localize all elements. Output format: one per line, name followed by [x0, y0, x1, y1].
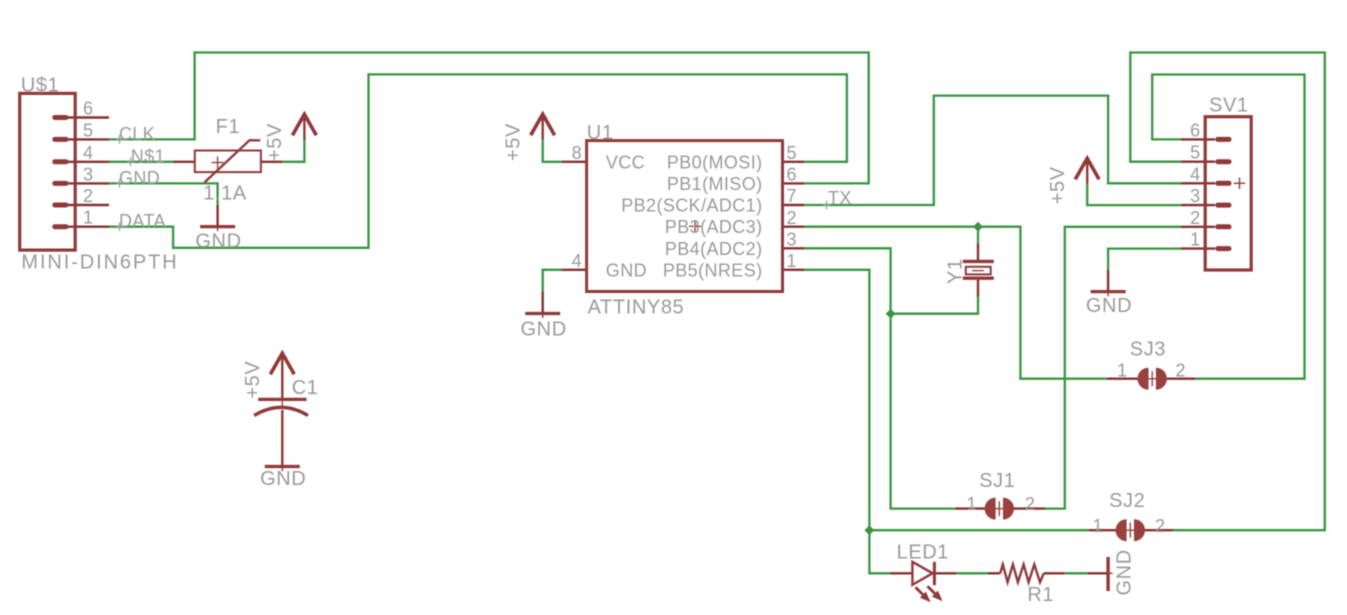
svg-text:2: 2 — [1176, 361, 1186, 381]
svg-text:PB2(SCK/ADC1): PB2(SCK/ADC1) — [621, 196, 762, 216]
svg-text:GND: GND — [1114, 549, 1136, 595]
svg-text:4: 4 — [1190, 164, 1200, 184]
svg-text:PB3(ADC3): PB3(ADC3) — [665, 217, 763, 237]
svg-text:2: 2 — [1190, 208, 1200, 228]
svg-text:6: 6 — [1190, 120, 1200, 140]
svg-text:5: 5 — [787, 143, 797, 163]
svg-text:DATA: DATA — [119, 211, 166, 231]
svg-text:PB5(NRES): PB5(NRES) — [663, 260, 763, 280]
svg-text:+5V: +5V — [264, 123, 286, 161]
svg-text:1: 1 — [1190, 230, 1200, 250]
svg-text:7: 7 — [787, 186, 797, 206]
svg-text:N$1: N$1 — [131, 146, 165, 166]
svg-text:LED1: LED1 — [897, 542, 949, 564]
svg-text:1: 1 — [1093, 516, 1103, 536]
svg-text:+5V: +5V — [1047, 166, 1069, 204]
svg-text:U$1: U$1 — [21, 74, 60, 96]
svg-text:3: 3 — [787, 230, 797, 250]
svg-text:GND: GND — [195, 231, 241, 253]
svg-text:U1: U1 — [587, 122, 614, 144]
svg-text:PB4(ADC2): PB4(ADC2) — [665, 239, 763, 259]
svg-text:6: 6 — [83, 99, 93, 119]
svg-text:GND: GND — [260, 468, 306, 490]
svg-text:VCC: VCC — [606, 152, 645, 172]
svg-text:GND: GND — [606, 260, 647, 280]
svg-text:Y1: Y1 — [945, 258, 967, 284]
svg-text:2: 2 — [1155, 516, 1165, 536]
svg-text:F1: F1 — [216, 116, 241, 138]
svg-text:C1: C1 — [292, 377, 319, 399]
svg-text:1: 1 — [1117, 361, 1127, 381]
svg-text:MINI-DIN6PTH: MINI-DIN6PTH — [21, 252, 178, 274]
svg-text:4: 4 — [572, 251, 582, 271]
svg-text:8: 8 — [572, 143, 582, 163]
svg-text:CLK: CLK — [119, 124, 155, 144]
svg-text:6: 6 — [787, 165, 797, 185]
svg-text:1: 1 — [787, 251, 797, 271]
svg-text:GND: GND — [1086, 295, 1132, 317]
svg-text:5: 5 — [83, 120, 93, 140]
svg-text:5: 5 — [1190, 143, 1200, 163]
svg-text:SJ3: SJ3 — [1130, 339, 1166, 361]
svg-text:GND: GND — [119, 168, 160, 188]
svg-text:TX: TX — [828, 188, 852, 208]
svg-text:PB1(MISO): PB1(MISO) — [667, 174, 763, 194]
svg-text:SJ2: SJ2 — [1109, 490, 1145, 512]
svg-text:+5V: +5V — [242, 361, 264, 399]
svg-text:1.1A: 1.1A — [203, 183, 247, 205]
svg-text:GND: GND — [521, 318, 567, 340]
svg-text:2: 2 — [83, 186, 93, 206]
svg-text:4: 4 — [83, 143, 93, 163]
svg-text:3: 3 — [1190, 186, 1200, 206]
svg-text:PB0(MOSI): PB0(MOSI) — [667, 152, 763, 172]
svg-text:R1: R1 — [1027, 584, 1054, 606]
svg-text:SJ1: SJ1 — [979, 470, 1015, 492]
svg-text:2: 2 — [787, 208, 797, 228]
svg-text:SV1: SV1 — [1209, 95, 1249, 117]
svg-text:ATTINY85: ATTINY85 — [588, 297, 685, 319]
svg-text:3: 3 — [83, 164, 93, 184]
svg-text:2: 2 — [1025, 494, 1035, 514]
svg-text:1: 1 — [83, 208, 93, 228]
svg-text:+5V: +5V — [502, 123, 524, 161]
svg-text:1: 1 — [967, 494, 977, 514]
